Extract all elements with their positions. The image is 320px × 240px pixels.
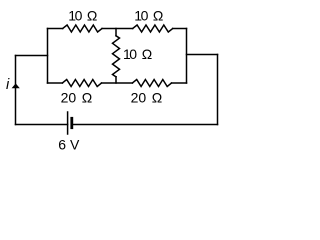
svg-text:10: 10 xyxy=(68,8,82,24)
wire right stub node B xyxy=(187,54,218,56)
wire top rail middle segment xyxy=(102,28,133,30)
resistor R1 10 Ohm top-left xyxy=(63,25,102,32)
wire inner left vertical xyxy=(47,29,49,84)
wire inner right vertical xyxy=(186,29,188,84)
wire middle branch bottom stub xyxy=(115,77,117,83)
wire battery rail right segment xyxy=(73,124,217,126)
svg-text:Ω: Ω xyxy=(153,8,163,24)
wire left stub node A xyxy=(16,55,48,57)
wire outer right vertical xyxy=(217,55,219,125)
current arrow i head xyxy=(12,83,20,88)
label 20 Ohm R3 xyxy=(61,89,93,105)
label 10 Ohm R5 xyxy=(123,46,152,62)
battery V1 positive plate (long) xyxy=(67,112,69,134)
svg-text:Ω: Ω xyxy=(152,89,162,105)
label 10 Ohm R1 xyxy=(68,8,97,24)
svg-text:6 V: 6 V xyxy=(58,136,80,152)
resistor R5 10 Ohm middle vertical xyxy=(113,36,120,77)
wire outer left vertical xyxy=(15,56,17,125)
wire middle branch top stub xyxy=(115,29,117,36)
svg-text:Ω: Ω xyxy=(87,8,97,24)
wire top rail right segment xyxy=(173,28,187,30)
resistor R3 20 Ohm bottom-left xyxy=(62,80,101,87)
wire bottom rail left segment xyxy=(48,82,63,84)
svg-text:Ω: Ω xyxy=(82,89,92,105)
label 10 Ohm R2 xyxy=(134,8,163,24)
label 20 Ohm R4 xyxy=(131,89,163,105)
wire battery rail left segment xyxy=(16,124,68,126)
battery V1 negative plate (short thick) xyxy=(70,118,73,127)
wire bottom rail middle segment xyxy=(102,82,133,84)
svg-text:20: 20 xyxy=(61,89,77,105)
wire bottom rail right segment xyxy=(172,82,187,84)
svg-text:Ω: Ω xyxy=(142,46,152,62)
svg-text:20: 20 xyxy=(131,89,147,105)
resistor R4 20 Ohm bottom-right xyxy=(132,80,171,87)
svg-text:i: i xyxy=(6,77,10,93)
wire top rail left segment xyxy=(48,28,63,30)
svg-text:10: 10 xyxy=(123,46,137,62)
svg-text:10: 10 xyxy=(134,8,148,24)
resistor R2 10 Ohm top-right xyxy=(133,25,173,32)
